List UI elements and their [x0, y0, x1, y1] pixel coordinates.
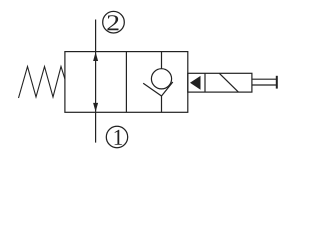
position divider — [125, 52, 127, 113]
solenoid armature divider — [204, 73, 206, 92]
port 1 wire — [95, 112, 97, 142]
valve body — [65, 52, 188, 113]
check valve seat — [143, 82, 173, 96]
solenoid U1 box — [188, 73, 252, 92]
connector stem — [252, 79, 277, 85]
port 1 label text — [115, 130, 122, 145]
port 2 label circle — [103, 11, 125, 33]
check valve upper wire — [161, 52, 163, 69]
solenoid push triangle — [190, 76, 201, 90]
flow path arrow — [93, 52, 98, 112]
port 2 label text — [107, 15, 118, 30]
solenoid coil diagonal — [219, 73, 238, 92]
spring — [19, 67, 65, 99]
connector pin — [276, 76, 278, 89]
check valve lower wire — [161, 96, 163, 112]
check valve poppet circle — [151, 69, 171, 89]
port 2 wire — [95, 20, 97, 52]
port 1 label circle — [106, 126, 127, 147]
